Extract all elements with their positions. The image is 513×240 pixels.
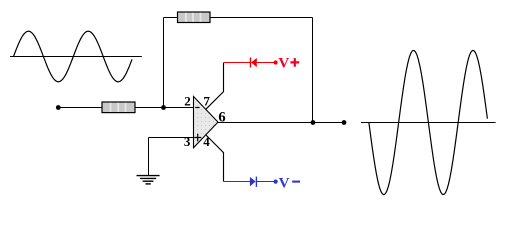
output waveform (large inverted sine) xyxy=(369,50,488,194)
svg-text:2: 2 xyxy=(184,93,191,108)
plus sign (non-inverting input) xyxy=(194,134,201,142)
wire V- blue run xyxy=(224,181,251,183)
pin 4 wire to V- xyxy=(206,135,224,182)
svg-text:6: 6 xyxy=(218,110,225,126)
output waveform axis xyxy=(361,122,496,124)
resistor R1 (input) xyxy=(102,102,135,113)
wire node A up to feedback xyxy=(163,18,165,108)
junction node A dot xyxy=(161,105,166,110)
ground xyxy=(137,176,160,184)
diode D2 (V- indicator) xyxy=(250,177,257,187)
wire ground to pin 3 xyxy=(149,137,194,139)
op-amp U1 xyxy=(194,97,219,148)
diode D1 (V+ indicator) xyxy=(251,58,257,68)
minus sign (inverting input) xyxy=(195,107,199,109)
V+ label xyxy=(278,56,299,72)
svg-text:3: 3 xyxy=(184,134,191,149)
wire R1 to node A xyxy=(135,107,194,109)
V- label xyxy=(279,176,301,192)
pin 7 wire to V+ xyxy=(206,63,224,110)
node V+ dot xyxy=(274,60,278,64)
wire input dot to R1 xyxy=(58,107,102,109)
node V- dot xyxy=(274,180,278,184)
wire output pin 6 run xyxy=(218,122,344,124)
wire ground stem xyxy=(148,138,150,176)
wire feedback down to output node xyxy=(312,18,314,123)
junction node OUT dot xyxy=(311,120,316,125)
svg-text:V: V xyxy=(278,56,289,72)
input waveform axis xyxy=(10,56,142,58)
node OUT terminal dot xyxy=(342,120,347,125)
wire diode to V+ dot xyxy=(257,62,274,64)
svg-text:V: V xyxy=(279,176,290,192)
resistor R2 (feedback) xyxy=(178,12,211,23)
wire feedback top run xyxy=(164,17,313,19)
wire diode to V- dot xyxy=(256,181,274,183)
input waveform (small sine) xyxy=(14,31,133,82)
wire V+ red run xyxy=(224,62,251,64)
node IN terminal dot xyxy=(56,105,61,110)
